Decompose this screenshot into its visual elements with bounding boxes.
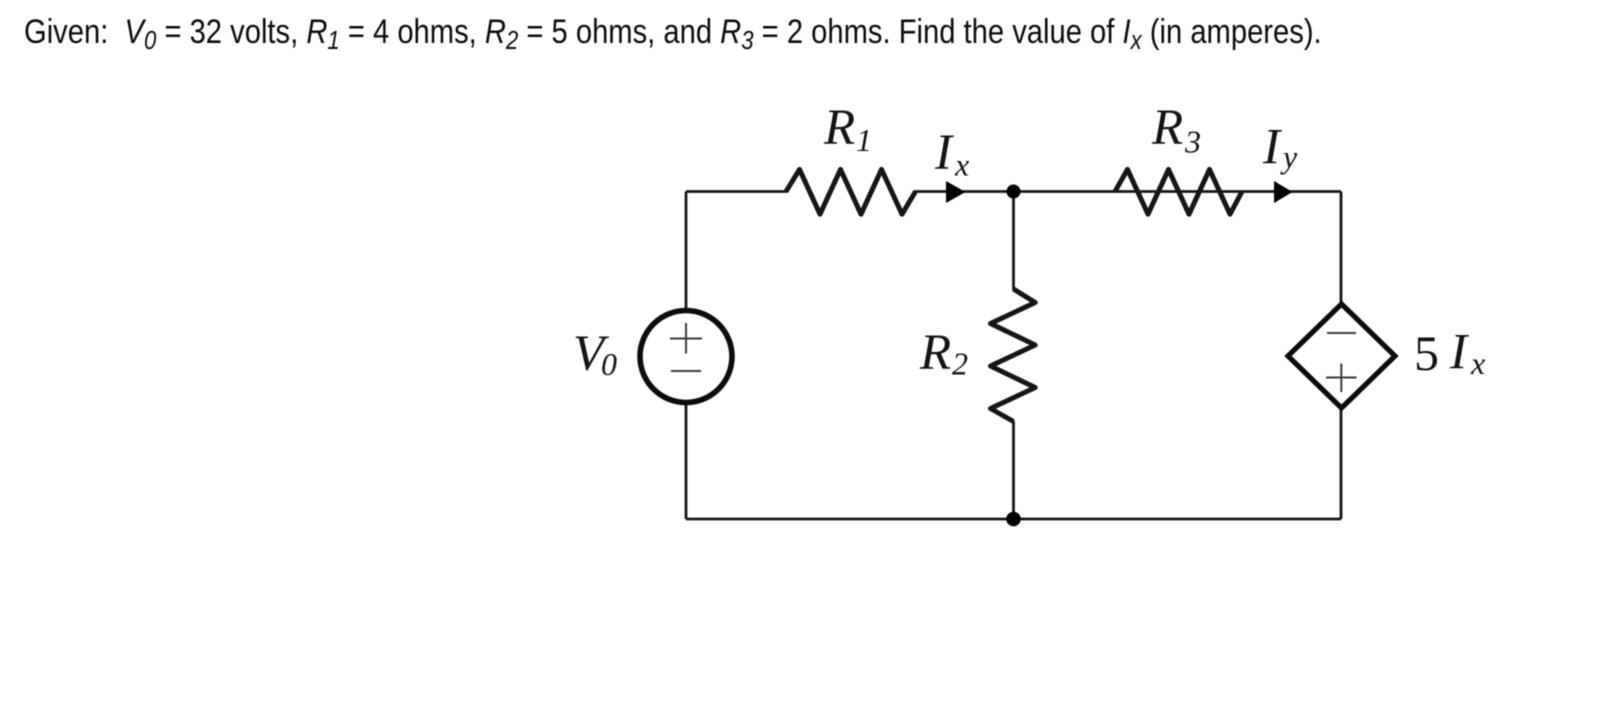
svg-text:x: x bbox=[954, 147, 969, 183]
svg-text:I: I bbox=[934, 125, 954, 181]
svg-text:3: 3 bbox=[1184, 124, 1201, 160]
svg-text:R: R bbox=[823, 100, 855, 156]
svg-text:R: R bbox=[1151, 100, 1183, 156]
svg-text:5: 5 bbox=[1414, 325, 1439, 381]
svg-text:I: I bbox=[1262, 120, 1282, 176]
svg-text:2: 2 bbox=[952, 346, 968, 382]
svg-text:I: I bbox=[1449, 325, 1469, 381]
svg-text:x: x bbox=[1470, 345, 1485, 381]
svg-text:y: y bbox=[1280, 139, 1298, 175]
svg-text:R: R bbox=[919, 325, 951, 381]
svg-text:0: 0 bbox=[601, 346, 617, 382]
svg-text:1: 1 bbox=[856, 122, 872, 158]
